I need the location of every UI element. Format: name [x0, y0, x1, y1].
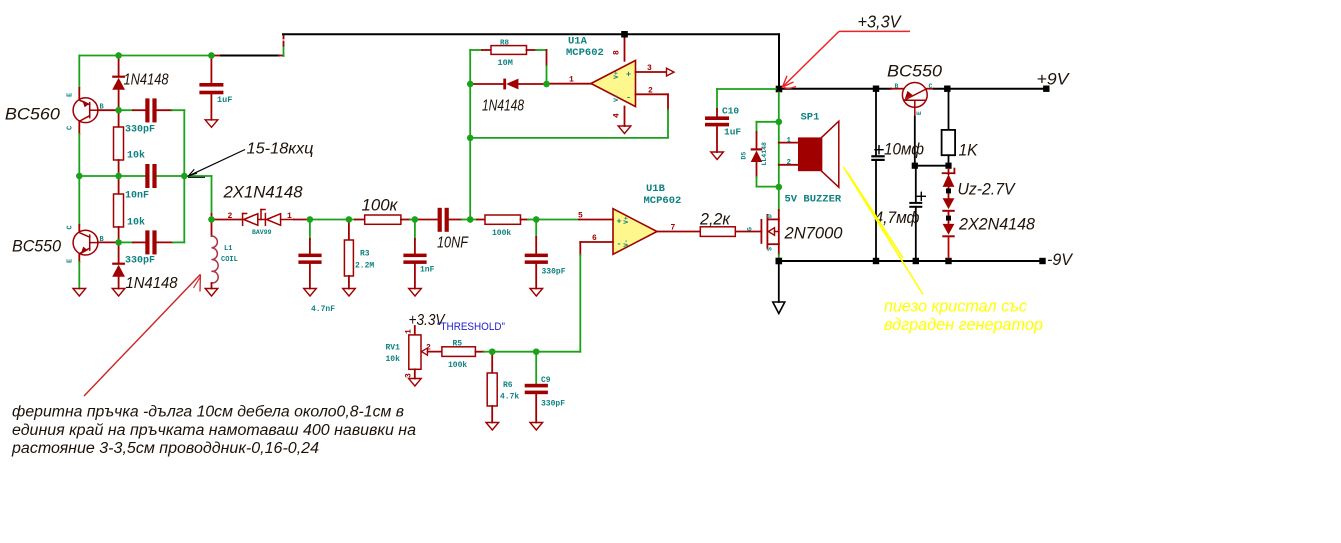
svg-text:U1A: U1A: [568, 36, 588, 48]
svg-text:+3,3V: +3,3V: [858, 12, 903, 32]
svg-text:пиезо кристал със: пиезо кристал със: [884, 297, 1027, 316]
capacitor C5 4.7nF: [309, 220, 311, 240]
svg-text:D5: D5: [741, 152, 748, 160]
node junction dots overlay: [76, 52, 782, 355]
transistor Q3 2N7000: [778, 187, 780, 210]
svg-text:100k: 100k: [448, 361, 467, 370]
resistor R3 2.2M: [348, 220, 350, 241]
diode D3 1N4148: [473, 83, 503, 85]
svg-text:R8: R8: [500, 40, 510, 48]
svg-text:E: E: [67, 259, 75, 263]
svg-text:1K: 1K: [959, 141, 979, 160]
svg-text:MCP602: MCP602: [644, 195, 682, 207]
svg-text:4: 4: [613, 113, 622, 118]
wire buzzer vertical: [778, 92, 780, 122]
U1B pin 6 input: [580, 241, 613, 243]
svg-text:5: 5: [578, 212, 583, 221]
transistor Q2 BC550: [78, 176, 80, 225]
svg-text:15-18кхц: 15-18кхц: [247, 141, 314, 158]
svg-text:2X1N4148: 2X1N4148: [223, 183, 304, 202]
svg-text:C: C: [929, 83, 933, 90]
resistor R8 10M: [470, 49, 482, 51]
U1A pin 3 output port: [636, 71, 667, 73]
node L1/BAV99 junction: [208, 216, 214, 222]
LEFT OSCILLATOR SECTION: [67, 36, 310, 296]
svg-text:8: 8: [613, 50, 622, 55]
diode D8 1N4148: [943, 224, 955, 235]
svg-text:10k: 10k: [127, 150, 145, 162]
capacitor C9 330pF: [535, 352, 537, 384]
svg-text:LL4148: LL4148: [761, 142, 768, 166]
svg-text:330pF: 330pF: [125, 256, 155, 267]
svg-text:R5: R5: [453, 340, 463, 349]
svg-text:R6: R6: [503, 381, 513, 390]
svg-text:2: 2: [648, 86, 653, 95]
svg-text:V+: V+: [613, 71, 620, 79]
svg-text:3: 3: [405, 373, 414, 378]
wire +9V rail: [782, 88, 891, 90]
MIDDLE AMP SECTION: [298, 31, 700, 430]
svg-text:1N4148: 1N4148: [126, 275, 178, 292]
svg-text:4.7k: 4.7k: [500, 393, 519, 402]
svg-text:BAV99: BAV99: [252, 229, 272, 236]
wire threshold row y=351.7: [489, 349, 495, 355]
capacitor C4 1uF: [210, 59, 212, 83]
op-amp U1B MCP602: [613, 209, 657, 255]
U1A pin 8 supply: [621, 31, 627, 37]
svg-text:4.7nF: 4.7nF: [311, 305, 335, 314]
capacitor C7 10NF coupling: [415, 219, 438, 221]
svg-text:1uF: 1uF: [217, 95, 232, 105]
node junction base BC560: [115, 107, 121, 113]
capacitor C3 330pF: [121, 241, 133, 243]
svg-text:V-: V-: [613, 94, 620, 102]
wire top rail red stub 2: [279, 55, 284, 57]
red callout ferrite rod arrow: [84, 275, 200, 397]
wire top rail green y=55.5: [79, 55, 211, 57]
ground D2: [112, 289, 125, 297]
svg-text:C9: C9: [541, 376, 551, 385]
svg-text:1nF: 1nF: [420, 266, 435, 275]
svg-text:1: 1: [787, 137, 792, 145]
svg-text:2: 2: [228, 212, 233, 221]
svg-text:100k: 100k: [492, 229, 511, 238]
resistor 2.2k gate: [700, 227, 735, 237]
svg-text:G: G: [747, 227, 754, 231]
wire BC550 emitter to ground: [78, 254, 80, 263]
svg-text:C: C: [67, 225, 75, 229]
inductor L1 COIL: [211, 220, 213, 237]
capacitor C6 1nF: [414, 220, 416, 240]
wire top rail black overdraw: [221, 55, 279, 57]
node junction top-left: [115, 52, 121, 58]
U1B pin 7 output: [657, 231, 700, 233]
svg-text:1N4148: 1N4148: [124, 72, 169, 89]
RIGHT POWER SECTION: [283, 31, 1050, 313]
svg-text:U1B: U1B: [646, 183, 666, 195]
op-amp U1A MCP602: [549, 83, 591, 85]
diode D2 1N4148: [118, 242, 120, 263]
wire feedback vertical x=470.2: [469, 50, 471, 220]
ground BC550 emitter: [73, 289, 86, 297]
node junction 1uF top: [208, 52, 214, 58]
ground L1: [205, 289, 218, 297]
potentiometer RV1 10k: [414, 326, 416, 335]
svg-text:B: B: [895, 83, 899, 90]
svg-text:1: 1: [569, 76, 574, 85]
svg-text:D: D: [767, 214, 774, 218]
svg-text:C: C: [67, 126, 75, 130]
svg-text:7: 7: [671, 224, 676, 233]
wire top rail red stub: [211, 55, 221, 57]
svg-text:330pF: 330pF: [125, 125, 155, 136]
svg-text:S: S: [767, 247, 774, 251]
resistor R6 4.7k: [491, 352, 493, 373]
wire step up at x=283.5: [283, 46, 285, 57]
svg-text:10k: 10k: [127, 217, 145, 229]
capacitor C10 1uF: [716, 109, 718, 116]
resistor R5 100k: [442, 347, 476, 357]
node pin8 tap: [621, 31, 627, 37]
svg-text:330pF: 330pF: [542, 268, 566, 277]
svg-text:E: E: [67, 93, 75, 97]
svg-text:BC550: BC550: [887, 62, 943, 81]
transistor Q1 BC560: [73, 98, 98, 123]
svg-text:Uz-2.7V: Uz-2.7V: [958, 180, 1017, 199]
svg-text:единия край на пръчката намота: единия край на пръчката намотаваш 400 на…: [12, 422, 416, 439]
svg-text:10nF: 10nF: [125, 191, 149, 202]
svg-text:10NF: 10NF: [437, 235, 469, 252]
svg-text:RV1: RV1: [386, 344, 401, 353]
svg-text:+: +: [617, 217, 622, 227]
resistor R7 100k: [470, 219, 477, 221]
svg-text:330pF: 330pF: [541, 400, 565, 409]
wire right vertical x=184.3: [183, 110, 185, 242]
wire BC560 collector down: [78, 121, 80, 134]
transistor Q4 BC550 series: [902, 83, 927, 117]
resistor 1K: [948, 92, 950, 130]
svg-text:2.2M: 2.2M: [355, 262, 374, 271]
svg-text:вдграден генератор: вдграден генератор: [884, 315, 1043, 334]
svg-text:феритна пръчка -дълга 10см деб: феритна пръчка -дълга 10см дебела около0…: [12, 404, 404, 421]
svg-text:V+: V+: [623, 216, 630, 224]
svg-text:1uF: 1uF: [724, 127, 741, 138]
svg-text:"THRESHOLD": "THRESHOLD": [437, 321, 505, 333]
svg-text:100к: 100к: [362, 197, 399, 215]
yellow callout piezo: [844, 167, 924, 295]
svg-text:E: E: [916, 111, 923, 115]
wire signal row y=219.5: [310, 219, 355, 221]
svg-text:2: 2: [787, 159, 792, 167]
node junction base BC550: [115, 239, 121, 245]
svg-text:3: 3: [647, 64, 652, 73]
node source junction: [776, 258, 783, 265]
wire -9V rail: [782, 260, 1042, 262]
resistor R2 10k: [118, 176, 120, 194]
capacitor 10mF: [875, 92, 877, 155]
svg-text:10k: 10k: [386, 355, 401, 364]
wire to C10: [717, 88, 776, 90]
U1A pin 2 feedback: [636, 93, 669, 95]
diode D7 1N4148: [943, 198, 955, 209]
svg-text:2X2N4148: 2X2N4148: [958, 215, 1035, 234]
capacitor C2 10nF: [145, 164, 149, 188]
svg-text:BC560: BC560: [5, 105, 61, 124]
svg-text:-: -: [626, 93, 631, 103]
U1B pin 5 input: [536, 219, 579, 221]
capacitor C1 330pF: [121, 109, 133, 111]
svg-text:COIL: COIL: [221, 256, 238, 264]
wire emitter branch: [914, 117, 916, 166]
svg-text:1: 1: [405, 329, 414, 334]
wire mid rail to L1 node: [184, 175, 211, 177]
diode D1 1N4148: [118, 59, 120, 76]
svg-text:10M: 10M: [498, 58, 513, 68]
diode D5 LL4148 flyback: [757, 121, 779, 123]
svg-text:2N7000: 2N7000: [784, 224, 843, 243]
ground MOSFET source: [778, 264, 780, 302]
svg-text:MCP602: MCP602: [566, 47, 604, 59]
capacitor 4.7mF: [915, 169, 917, 202]
wire top +3.3V black rail: [283, 33, 779, 35]
svg-text:-: -: [617, 239, 622, 249]
svg-text:10мф: 10мф: [884, 140, 924, 159]
svg-text:R3: R3: [360, 250, 370, 259]
wire middle rail y=176: [79, 175, 145, 177]
resistor R4 100k: [365, 215, 401, 224]
svg-text:L1: L1: [224, 245, 232, 253]
zener diode Uz 2.7V: [948, 169, 950, 174]
svg-text:1: 1: [287, 212, 292, 221]
svg-text:растояние 3-3,5см проводдник-0: растояние 3-3,5см проводдник-0,16-0,24: [11, 440, 319, 457]
svg-text:6: 6: [592, 234, 597, 243]
svg-text:2,2к: 2,2к: [699, 210, 731, 229]
dual diode D4 BAV99: [214, 219, 242, 221]
node +3.3V junction: [776, 86, 783, 93]
svg-text:1N4148: 1N4148: [482, 98, 524, 115]
wire BC560 base: [98, 109, 119, 111]
svg-text:SP1: SP1: [801, 112, 820, 124]
resistor R1 10k: [118, 110, 120, 127]
buzzer SP1: [779, 142, 798, 144]
svg-text:BC550: BC550: [12, 237, 62, 256]
svg-text:+: +: [626, 70, 631, 80]
svg-text:-9V: -9V: [1047, 250, 1074, 269]
svg-text:V-: V-: [623, 239, 630, 247]
U1A pin 4 ground: [624, 107, 626, 127]
svg-text:5V BUZZER: 5V BUZZER: [785, 194, 842, 206]
ground C4: [205, 120, 218, 128]
capacitor C8 330pF: [535, 220, 537, 238]
svg-text:C10: C10: [722, 106, 739, 117]
svg-text:+9V: +9V: [1037, 70, 1071, 89]
wire BC560 emitter drop: [78, 56, 80, 89]
wire BC550 base: [98, 241, 119, 243]
